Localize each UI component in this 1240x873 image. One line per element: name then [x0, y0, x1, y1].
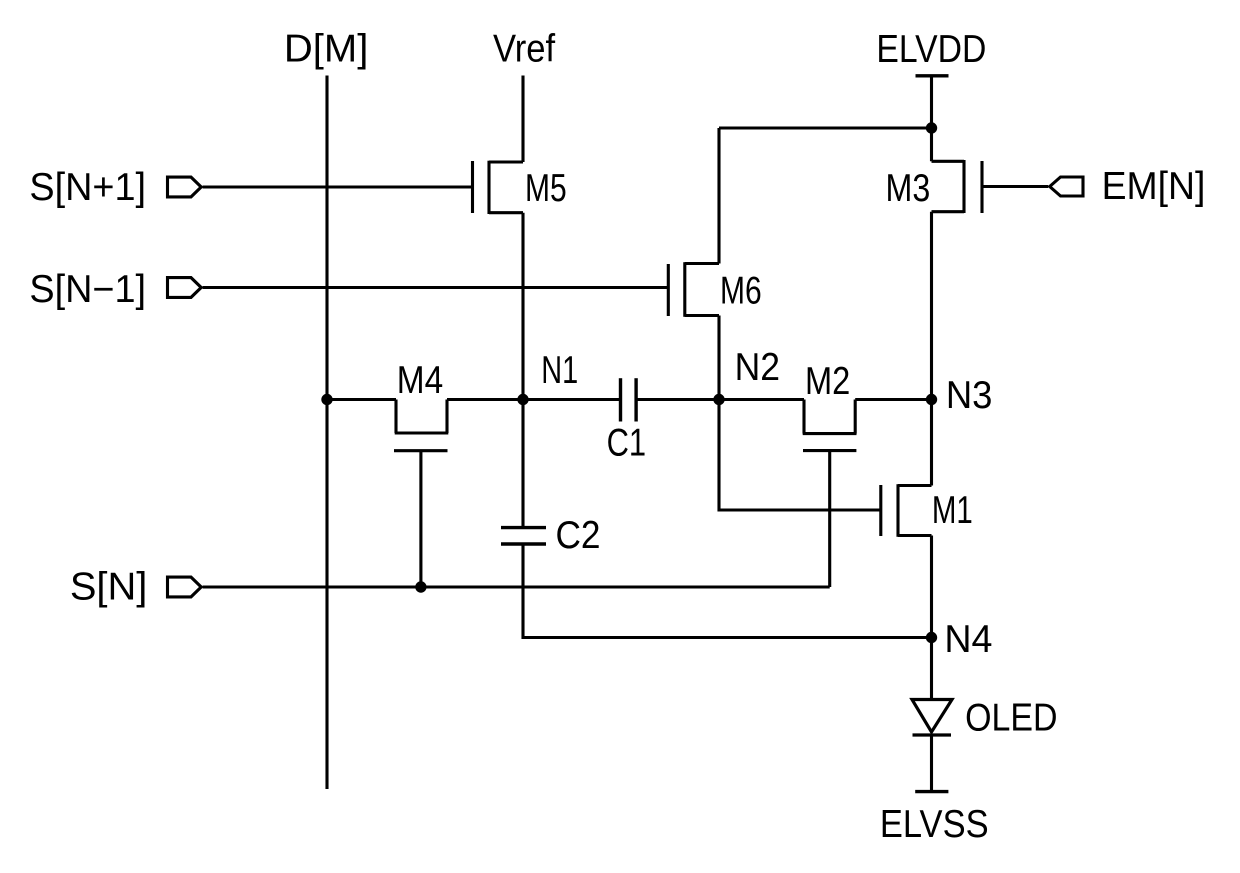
svg-text:N3: N3 [946, 373, 993, 416]
node N3 [926, 394, 937, 405]
capacitor C2 [501, 528, 546, 544]
transistor M6 [668, 262, 719, 317]
wire rail M2 to N3 [855, 398, 931, 401]
node N2 [713, 394, 724, 405]
node N1 [517, 394, 528, 405]
node ELVDD junction dot [926, 122, 937, 133]
svg-text:C1: C1 [607, 421, 646, 464]
wire S[N-1] to M6 gate [203, 286, 667, 289]
svg-text:OLED: OLED [965, 695, 1057, 739]
wire N4 down to OLED anode [930, 638, 933, 699]
wire M5 source down to N1 [521, 213, 524, 400]
svg-text:ELVDD: ELVDD [876, 27, 986, 71]
transistor M5 [473, 161, 524, 214]
svg-text:S[N]: S[N] [70, 566, 148, 608]
wire C2 down and right to N4 [523, 544, 932, 638]
wire N2 down to M1 gate [719, 400, 880, 511]
node M4 gate junction dot [415, 581, 426, 592]
svg-text:N1: N1 [541, 349, 578, 392]
node junction D[M]-rail dot [321, 394, 332, 405]
svg-text:M6: M6 [720, 270, 762, 312]
node N4 [926, 632, 937, 643]
wire rail C1 to N2 [636, 398, 719, 401]
transistor M3 [932, 160, 983, 213]
diode OLED [912, 700, 952, 736]
svg-text:S[N−1]: S[N−1] [29, 268, 146, 311]
transistor M1 [881, 484, 932, 537]
transistor M2 [803, 400, 857, 451]
wire ELVDD to M6 branch horizontal [719, 126, 932, 129]
wire S[N+1] to M5 gate [203, 185, 471, 188]
svg-text:Vref: Vref [493, 27, 556, 70]
wire ELVDD stem [930, 76, 933, 162]
svg-text:N2: N2 [735, 345, 780, 389]
svg-text:M3: M3 [885, 166, 930, 209]
wire rail D[M] to M4 [327, 398, 396, 401]
svg-text:ELVSS: ELVSS [880, 802, 989, 845]
power ELVDD bar [916, 74, 949, 77]
svg-text:EM[N]: EM[N] [1102, 166, 1206, 209]
power ELVSS bar [915, 790, 948, 793]
svg-text:M1: M1 [932, 489, 973, 532]
wire N3 down to M1 drain [930, 400, 933, 486]
capacitor C1 [621, 378, 637, 421]
svg-text:M2: M2 [805, 359, 850, 402]
svg-text:S[N+1]: S[N+1] [29, 166, 146, 209]
wire D[M] vertical data line [325, 76, 328, 790]
wire M2 gate down to S[N] wire [828, 451, 831, 587]
wire rail N2 to M2 [719, 398, 804, 401]
transistor M4 [394, 400, 448, 451]
wire rail N1 to C1 [523, 398, 621, 401]
wire OLED cathode down [930, 735, 933, 792]
svg-text:D[M]: D[M] [284, 27, 368, 70]
svg-text:M4: M4 [397, 358, 443, 402]
wire M3 gate to EM pad [983, 185, 1048, 188]
wire M1 source down to N4 [930, 536, 933, 638]
input pad EM[N] [1050, 177, 1083, 196]
wire N1 down to C2 [521, 400, 524, 528]
svg-text:C2: C2 [555, 514, 600, 557]
wire rail M4 to N1 [447, 398, 523, 401]
svg-text:N4: N4 [944, 619, 992, 661]
wire Vref vertical [521, 76, 524, 163]
wire M6 source down to N2 [717, 316, 720, 400]
wire M3 drain down to N3 [930, 212, 933, 400]
svg-text:M5: M5 [525, 168, 567, 210]
wire M4 gate down to S[N] [419, 451, 422, 587]
wire S[N] row [203, 585, 830, 588]
wire branch down to M6 drain [717, 128, 720, 264]
